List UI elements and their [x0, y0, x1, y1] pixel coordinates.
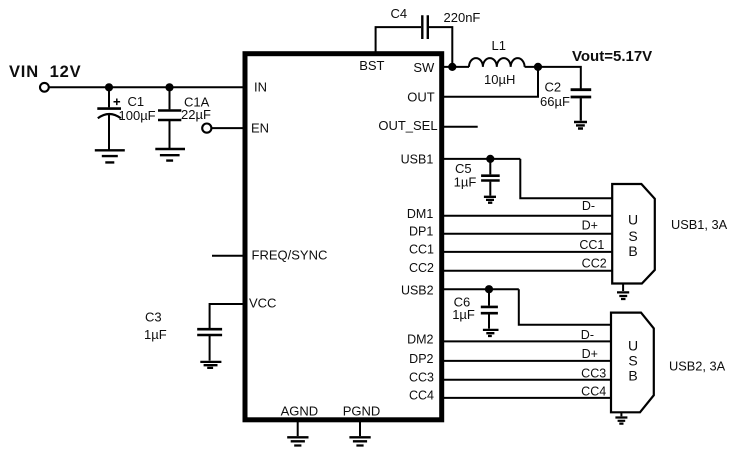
capacitor C3 stem: [209, 336, 211, 361]
ground J2: [615, 418, 627, 424]
svg-text:CC1: CC1: [579, 238, 604, 252]
wire DP1: [444, 233, 614, 235]
svg-text:USB2, 3A: USB2, 3A: [669, 358, 726, 373]
svg-text:10µH: 10µH: [484, 72, 515, 87]
junction C6 top: [485, 285, 493, 293]
wire EN: [212, 127, 243, 129]
svg-text:66µF: 66µF: [540, 94, 570, 109]
svg-text:DP1: DP1: [409, 224, 433, 238]
svg-text:IN: IN: [254, 80, 267, 95]
svg-text:USB1, 3A: USB1, 3A: [671, 217, 728, 232]
capacitor C1 plates: [97, 107, 121, 110]
wire DM2: [444, 340, 613, 342]
terminal VIN: [40, 83, 49, 92]
ground PGND stem: [359, 421, 361, 436]
svg-text:FREQ/SYNC: FREQ/SYNC: [252, 248, 328, 263]
ground AGND: [287, 437, 308, 445]
junction L1 output node: [534, 63, 542, 71]
wire BST: [376, 27, 421, 54]
svg-text:1µF: 1µF: [452, 307, 475, 322]
svg-text:CC4: CC4: [409, 389, 434, 403]
svg-text:L1: L1: [492, 38, 506, 53]
capacitor C6 plates: [481, 307, 498, 313]
capacitor C5 stems: [489, 159, 491, 196]
junction C5 top: [486, 155, 494, 163]
IC U1 body: [245, 54, 442, 420]
capacitor C1A stems: [169, 87, 171, 148]
capacitor C3 plates: [197, 329, 222, 335]
ground J1: [617, 292, 629, 299]
C1 polarity plus: [114, 99, 121, 106]
svg-text:22µF: 22µF: [181, 107, 211, 122]
svg-text:1µF: 1µF: [144, 327, 167, 342]
svg-text:D-: D-: [581, 328, 594, 342]
svg-text:VCC: VCC: [249, 296, 276, 311]
svg-text:U: U: [628, 212, 638, 228]
ground C1: [95, 150, 125, 162]
svg-text:OUT: OUT: [407, 90, 435, 105]
ground J2 stem: [620, 412, 622, 416]
ground PGND: [349, 437, 370, 445]
junction SW node: [448, 63, 456, 71]
svg-text:USB2: USB2: [401, 283, 434, 297]
wire SW: [444, 66, 470, 68]
wire OUT: [444, 67, 539, 97]
wire C4 to SW node: [429, 27, 453, 67]
capacitor C2 plates: [571, 90, 592, 97]
svg-text:SW: SW: [413, 60, 435, 75]
junction C1 top: [105, 83, 113, 91]
svg-text:DM2: DM2: [407, 333, 433, 347]
svg-text:B: B: [628, 368, 637, 384]
wire DM1: [444, 215, 614, 217]
svg-text:CC3: CC3: [581, 366, 606, 380]
wire CC3: [444, 379, 613, 381]
svg-text:CC2: CC2: [582, 257, 607, 271]
capacitor C2 stem: [580, 98, 582, 120]
wire L1 to Vout: [525, 67, 581, 89]
ground C1A: [155, 149, 185, 161]
wire USB2: [444, 288, 519, 290]
wire VCC: [210, 304, 243, 328]
svg-text:PGND: PGND: [343, 404, 381, 419]
svg-text:S: S: [628, 228, 637, 244]
svg-text:DP2: DP2: [409, 352, 433, 366]
svg-text:B: B: [628, 243, 637, 259]
svg-text:DM1: DM1: [407, 207, 433, 221]
svg-text:1µF: 1µF: [454, 175, 477, 190]
svg-text:C1: C1: [128, 94, 145, 109]
svg-text:VIN 12V: VIN 12V: [9, 63, 81, 81]
svg-text:AGND: AGND: [281, 404, 319, 419]
wire USB2 to connector: [519, 289, 612, 325]
ground J1 stem: [622, 284, 624, 292]
svg-text:D+: D+: [582, 347, 598, 361]
capacitor C5 plates: [481, 176, 500, 181]
svg-text:S: S: [628, 353, 637, 369]
wire DP2: [444, 360, 613, 362]
svg-text:D-: D-: [582, 199, 595, 213]
USB connector J2: [611, 313, 654, 413]
wire CC1: [444, 251, 614, 253]
ground C5: [484, 197, 496, 203]
wire CC2: [444, 270, 614, 272]
USB connector J1: [612, 184, 655, 284]
ground C2: [574, 122, 587, 129]
capacitor C6 stems: [488, 289, 490, 328]
wire USB1 to connector: [520, 159, 613, 198]
svg-text:D+: D+: [582, 219, 598, 233]
junction C1A top: [165, 83, 173, 91]
svg-text:CC2: CC2: [409, 261, 434, 275]
svg-text:USB1: USB1: [401, 152, 434, 166]
svg-text:C4: C4: [391, 6, 408, 21]
wire CC4: [444, 397, 613, 399]
wire FREQ/SYNC stub: [212, 255, 243, 257]
svg-text:C2: C2: [545, 80, 562, 95]
terminal EN: [202, 124, 211, 133]
svg-text:CC4: CC4: [581, 385, 606, 399]
ground AGND stem: [297, 421, 299, 436]
svg-text:U: U: [628, 338, 638, 354]
inductor L1: [469, 58, 525, 67]
svg-text:CC1: CC1: [409, 243, 434, 257]
svg-text:OUT_SEL: OUT_SEL: [378, 118, 437, 133]
svg-text:BST: BST: [359, 58, 384, 73]
svg-text:CC3: CC3: [409, 371, 434, 385]
wire VIN to IN: [49, 86, 243, 88]
capacitor C4 plates: [422, 15, 428, 39]
capacitor C1A plates: [158, 111, 181, 121]
svg-text:100µF: 100µF: [119, 108, 156, 123]
ground C6: [483, 330, 499, 336]
wire USB1: [444, 158, 521, 160]
svg-text:Vout=5.17V: Vout=5.17V: [572, 48, 652, 65]
svg-text:EN: EN: [251, 121, 269, 136]
svg-text:220nF: 220nF: [444, 10, 481, 25]
ground C3: [200, 362, 221, 368]
capacitor C1 stems: [108, 87, 110, 149]
wire OUT_SEL stub: [444, 126, 478, 128]
svg-text:C3: C3: [145, 309, 162, 324]
